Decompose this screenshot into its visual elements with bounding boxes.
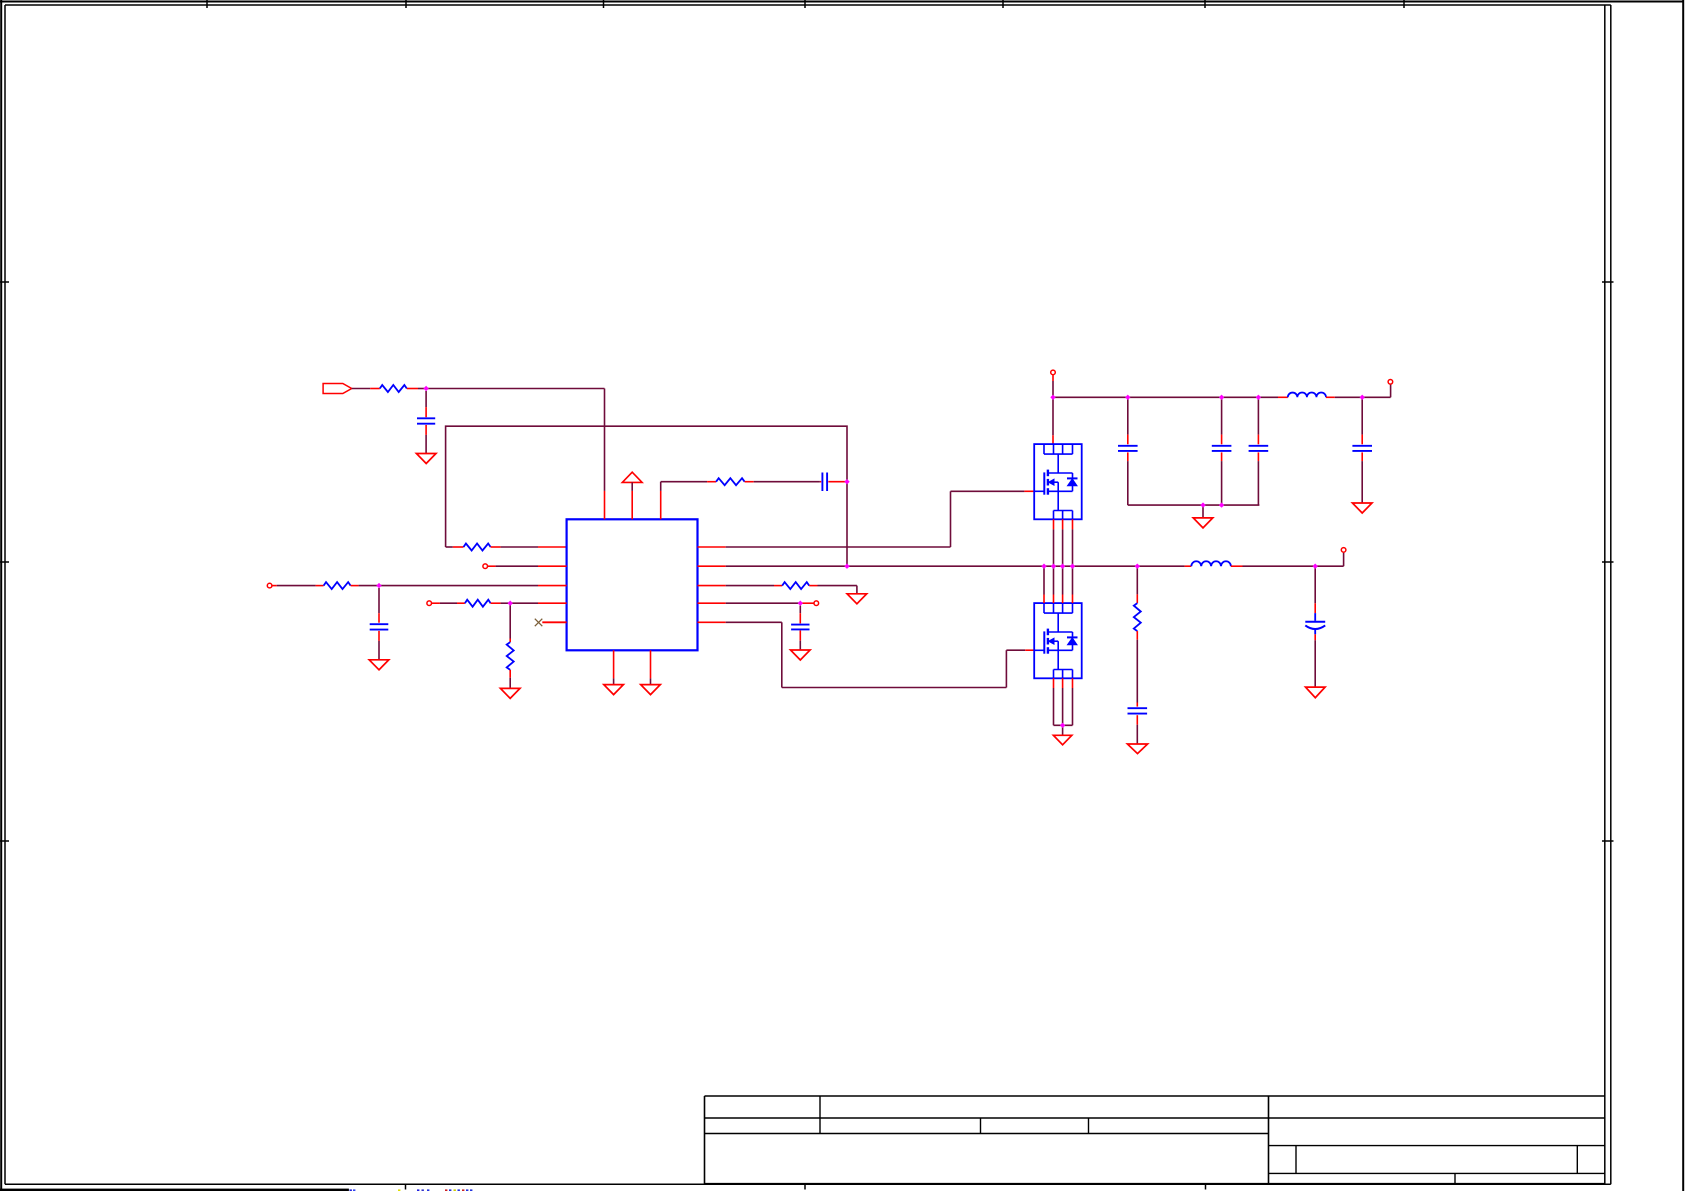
resistor R8 bbox=[1134, 566, 1141, 640]
title block bbox=[705, 1096, 1605, 1184]
junction node C bbox=[376, 583, 381, 588]
junction node A bbox=[423, 386, 428, 391]
terminal T3 bbox=[427, 601, 432, 606]
junction node G2 bbox=[1219, 395, 1224, 400]
resistor R4 bbox=[316, 582, 359, 589]
U1 top pin 1 bbox=[604, 491, 606, 519]
wire R1 to junction bbox=[418, 388, 426, 390]
junction node G4 bbox=[1360, 395, 1365, 400]
wire rail to Q2 drain 1 bbox=[1043, 566, 1045, 603]
wire Q2 source link bbox=[1054, 724, 1073, 726]
capacitor C6 bbox=[1212, 397, 1232, 505]
wire Q2 source 3 down bbox=[1072, 678, 1074, 725]
capacitor C5 bbox=[1118, 397, 1138, 505]
wire T2 to R4 bbox=[272, 585, 316, 587]
wire node I to ground bbox=[1062, 725, 1064, 735]
U1 bottom pin gnd 1 bbox=[613, 650, 615, 684]
junction node H2 bbox=[1219, 502, 1224, 507]
wire Q1 source 1 to rail bbox=[1053, 519, 1055, 566]
wire node D to U1 bbox=[510, 602, 566, 604]
transistor Q2 bbox=[1034, 603, 1082, 678]
wire loop top bbox=[446, 426, 847, 547]
wire node B down to SW rail bbox=[846, 482, 848, 567]
wire junction A to pin1 drop bbox=[426, 389, 604, 491]
wire R8 to C9 bbox=[1136, 640, 1138, 703]
ground under C1 bbox=[416, 454, 436, 464]
junction node D bbox=[508, 601, 513, 606]
net label tag IN bbox=[323, 384, 352, 394]
inductor L1 bbox=[1278, 393, 1335, 398]
ground under cap link bbox=[1193, 518, 1213, 528]
junction node B2 bbox=[844, 564, 849, 569]
ground under C3 bbox=[369, 660, 389, 670]
junction node J bbox=[1135, 564, 1140, 569]
wire cap bottom link bbox=[1128, 504, 1260, 506]
wire rail VIN bbox=[1053, 396, 1278, 398]
ground under U1 pin2 bbox=[641, 685, 661, 695]
terminal T7 bbox=[1388, 380, 1393, 385]
no-connect X pin bbox=[535, 619, 567, 627]
resistor R5 bbox=[457, 600, 501, 607]
wire rail drop to Q1 bbox=[1052, 397, 1054, 444]
wire node C to U1 bbox=[379, 585, 567, 587]
capacitor C4 bbox=[791, 606, 809, 650]
junction SW 2 bbox=[1051, 564, 1056, 569]
bottom cut text fragments bbox=[0, 1189, 472, 1191]
ground under R6 bbox=[500, 688, 520, 698]
capacitor C8 bbox=[1352, 397, 1372, 503]
wire to ground H bbox=[1202, 505, 1204, 518]
ground under CP1 bbox=[1306, 687, 1326, 698]
wire tag to R1 bbox=[352, 388, 371, 390]
wire R2 to U1 pin bbox=[501, 546, 567, 548]
junction node F bbox=[1050, 395, 1055, 400]
resistor R2 bbox=[446, 544, 501, 551]
wire R5 to junction D bbox=[501, 602, 511, 604]
junction SW 3 bbox=[1060, 564, 1065, 569]
junction SW 4 bbox=[1070, 564, 1075, 569]
power symbol VCC bbox=[622, 472, 642, 519]
ground under U1 pin1 bbox=[604, 685, 624, 695]
terminal T5 bbox=[800, 601, 818, 606]
wire Q1 source 2 to rail bbox=[1062, 519, 1064, 566]
terminal T2 bbox=[267, 583, 272, 588]
wire Q1 source 3 to rail bbox=[1072, 519, 1074, 566]
wire T6 down bbox=[1052, 375, 1054, 397]
junction node E bbox=[798, 601, 803, 606]
junction node K bbox=[1313, 564, 1318, 569]
wire node K up to T8 bbox=[1343, 553, 1345, 567]
junction node G1 bbox=[1125, 395, 1130, 400]
resistor R7 bbox=[698, 582, 818, 589]
wire U1 to node E bbox=[698, 602, 801, 604]
op-amp U1 controller IC body bbox=[567, 519, 698, 650]
ground under C4 bbox=[791, 650, 811, 660]
capacitor C7 bbox=[1249, 397, 1269, 505]
wire Q2 source 2 down bbox=[1062, 678, 1064, 725]
capacitor CP1 polarized bbox=[1305, 566, 1325, 687]
junction SW 1 bbox=[1041, 564, 1046, 569]
terminal T8 bbox=[1341, 548, 1346, 553]
capacitor C9 bbox=[1128, 703, 1148, 745]
wire U1 to Q1 gate bbox=[698, 491, 1035, 547]
ground under C9 bbox=[1127, 744, 1147, 754]
junction node I bbox=[1060, 723, 1065, 728]
wire R4 to junction C bbox=[359, 585, 379, 587]
transistor Q1 bbox=[1034, 444, 1082, 519]
wire L2 to node K bbox=[1243, 565, 1344, 567]
inductor L2 bbox=[1185, 561, 1243, 566]
U1 top pin 3 bbox=[661, 482, 707, 520]
wire Q2 source 1 down bbox=[1053, 678, 1055, 725]
resistor R1 bbox=[370, 385, 418, 392]
wire R3 to C2 bbox=[754, 481, 820, 483]
capacitor C1 bbox=[417, 391, 435, 454]
junction node H1 bbox=[1200, 502, 1205, 507]
wire L1 to T7 bbox=[1335, 385, 1391, 398]
wire U1 SW pin to rail bbox=[698, 565, 1185, 567]
wire T1 to U1 bbox=[488, 565, 567, 567]
capacitor C2 bbox=[820, 473, 847, 492]
wire U1 to Q2 gate bbox=[698, 622, 1035, 687]
resistor R6 bbox=[507, 603, 514, 688]
ground under C8 bbox=[1352, 503, 1372, 513]
resistor R3 bbox=[707, 478, 754, 485]
wire rail to Q2 drain 4 bbox=[1072, 566, 1074, 603]
junction node B bbox=[844, 479, 849, 484]
wire R7 to ground bbox=[818, 586, 857, 594]
terminal T1 bbox=[483, 564, 488, 569]
wire rail to Q2 drain 2 bbox=[1053, 566, 1055, 603]
terminal T6 VIN bbox=[1051, 370, 1056, 375]
ground under Q2 bbox=[1053, 735, 1071, 745]
wire T3 to R5 bbox=[432, 602, 457, 604]
U1 bottom pin gnd 2 bbox=[650, 650, 652, 684]
ground after R7 bbox=[847, 594, 867, 604]
junction node G3 bbox=[1256, 395, 1261, 400]
wire rail to Q2 drain 3 bbox=[1062, 566, 1064, 603]
capacitor C3 bbox=[370, 588, 389, 660]
